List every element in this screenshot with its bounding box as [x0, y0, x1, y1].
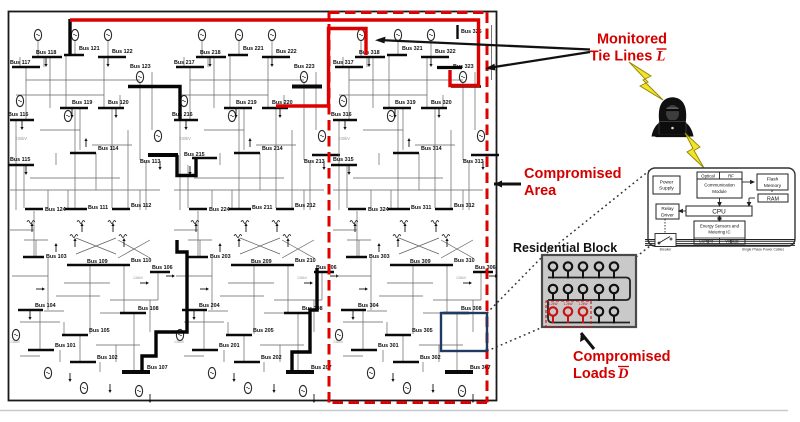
meter: power supply [653, 176, 680, 194]
bus 120 [98, 100, 129, 108]
bus 110 [112, 258, 151, 265]
tie line 113-215 (bold) [150, 155, 196, 176]
svg-text:Optical: Optical [701, 174, 715, 179]
svg-text:Bus 119: Bus 119 [72, 100, 92, 106]
svg-text:Bus 215: Bus 215 [184, 152, 205, 158]
bus 316 [331, 112, 357, 120]
svg-text:Bus 204: Bus 204 [199, 303, 220, 309]
meter: energy sensors and metering IC [694, 221, 745, 244]
bus 217 [174, 60, 204, 67]
dotted connector: blue box to residential block (top) [487, 256, 543, 313]
generator area 1 #9 [44, 367, 51, 378]
svg-text:Bus 305: Bus 305 [412, 328, 433, 334]
load arrows area 2 [184, 58, 339, 403]
svg-text:Bus 120: Bus 120 [108, 100, 129, 106]
generator area 3 #10 [403, 382, 410, 393]
generator area 1 #5 [64, 110, 71, 121]
svg-text:Bus 315: Bus 315 [333, 157, 354, 163]
svg-text:Bus 224: Bus 224 [209, 207, 230, 213]
label: Compromised Area [524, 166, 622, 199]
bus 301 [351, 343, 399, 350]
label: Residential Block [513, 241, 617, 255]
bus 123 [128, 64, 158, 87]
svg-text:Bus 108: Bus 108 [138, 306, 159, 312]
highlighted residential bus box (blue) [441, 313, 487, 351]
bus 320 [421, 100, 452, 108]
generator area 3 #1 [357, 29, 364, 40]
bus 223 [292, 64, 322, 87]
tie line 107-203 (bold) [142, 240, 187, 371]
svg-text:Bus 202: Bus 202 [261, 355, 282, 361]
bus 124 [25, 207, 66, 213]
generator area 3 #6 [459, 71, 466, 82]
bus 322 [421, 49, 456, 57]
bus 114 [70, 146, 118, 153]
bus 106 [150, 265, 173, 272]
bus 221 [228, 46, 264, 55]
svg-text:Compromised: Compromised [573, 349, 671, 365]
bus 209 [231, 259, 276, 265]
bus 212 [276, 203, 316, 209]
svg-text:Bus 304: Bus 304 [358, 303, 379, 309]
bus 218 [196, 50, 226, 57]
generator area 2 #11 [299, 385, 306, 396]
bus 312 [435, 203, 475, 209]
svg-text:Bus 104: Bus 104 [35, 303, 56, 309]
generator area 1 #2 [71, 29, 78, 40]
svg-text:Bus 311: Bus 311 [411, 205, 431, 211]
residential loads row 2 [549, 285, 618, 301]
bus 213 [304, 155, 340, 165]
generator area 2 #9 [208, 367, 215, 378]
arrow to compromised area [494, 181, 521, 188]
svg-text:L: L [656, 49, 666, 65]
svg-text:Bus 116: Bus 116 [8, 112, 28, 118]
svg-text:Bus 114: Bus 114 [98, 146, 118, 152]
bus 323 tie terminal bar (bold) [437, 66, 462, 69]
bus 224 [189, 207, 230, 213]
bus 317 [333, 60, 363, 67]
generator area 1 #8 [12, 329, 19, 340]
bus 113 [140, 155, 176, 165]
bus 315 [331, 157, 357, 165]
bus 109 [67, 259, 112, 265]
svg-text:Bus 303: Bus 303 [369, 254, 390, 260]
svg-text:Bus 213: Bus 213 [304, 159, 325, 165]
wires area 2 [174, 41, 324, 372]
generator area 2 #2 [235, 29, 242, 40]
svg-text:1.2kW: 1.2kW [578, 302, 587, 306]
residential feeder wires [548, 278, 630, 323]
bus 119 [60, 100, 92, 108]
meter: flash memory [757, 174, 788, 190]
svg-text:Single Phase Power Cables: Single Phase Power Cables [742, 248, 784, 252]
svg-text:Energy Sensors and: Energy Sensors and [700, 224, 740, 229]
generator area 2 #7 [318, 130, 325, 141]
bus 321 [387, 46, 423, 55]
residential loads row 1 [549, 262, 618, 278]
label: Compromised Loads [573, 349, 671, 382]
svg-text:230kV: 230kV [179, 136, 191, 141]
dotted connector: residential block to meter (bottom) [636, 246, 650, 257]
svg-text:Bus 206: Bus 206 [316, 265, 337, 271]
svg-text:Bus 205: Bus 205 [253, 328, 274, 334]
svg-text:Bus 320: Bus 320 [431, 100, 452, 106]
svg-text:Supply: Supply [659, 186, 674, 192]
svg-text:Monitored: Monitored [597, 32, 667, 48]
bus 220 [262, 100, 293, 108]
svg-text:Bus 221: Bus 221 [243, 46, 264, 52]
bus 202 [234, 355, 282, 362]
generator area 3 #3 [427, 29, 434, 40]
bus 122 [98, 49, 133, 57]
svg-text:Bus 109: Bus 109 [87, 259, 108, 265]
svg-text:Bus 113: Bus 113 [140, 159, 160, 165]
generator area 3 #9 [367, 367, 374, 378]
bus 304 [341, 303, 379, 310]
generator area 1 #1 [34, 29, 41, 40]
bus 318 [355, 50, 385, 57]
bus 108 [120, 306, 159, 313]
svg-text:Bus 319: Bus 319 [395, 100, 416, 106]
generator area 1 #10 [80, 382, 87, 393]
bus 208 [284, 306, 323, 313]
svg-text:Bus 219: Bus 219 [236, 100, 257, 106]
generator area 1 #4 [16, 95, 23, 106]
bus 121 [64, 46, 100, 55]
svg-text:Bus 115: Bus 115 [10, 157, 30, 163]
svg-text:Bus 322: Bus 322 [435, 49, 456, 55]
svg-text:Bus 308: Bus 308 [461, 306, 482, 312]
voltage labels area 3 [333, 136, 467, 344]
bus 222 [262, 49, 297, 57]
generator area 1 #11 [135, 385, 142, 396]
bus 103 [23, 254, 67, 260]
bus 324 [348, 207, 389, 213]
svg-text:Bus 314: Bus 314 [421, 146, 442, 152]
label: Monitored Tie Lines [590, 32, 667, 65]
transformers area 1 [27, 221, 127, 238]
svg-text:138kV: 138kV [456, 276, 467, 280]
load arrows area 3 [343, 58, 498, 403]
svg-text:Bus 324: Bus 324 [368, 207, 389, 213]
lightning bolt lower [685, 133, 704, 168]
voltage labels area 2 [174, 136, 308, 344]
bus 313 [463, 155, 499, 165]
page rule at bottom [0, 410, 788, 412]
svg-text:Bus 310: Bus 310 [454, 258, 475, 264]
svg-text:Bus 312: Bus 312 [454, 203, 475, 209]
svg-text:Bus 222: Bus 222 [276, 49, 297, 55]
svg-text:Bus 106: Bus 106 [152, 265, 173, 271]
bus 118 [32, 50, 62, 57]
bus 203 [187, 254, 231, 260]
svg-text:Module: Module [712, 189, 727, 194]
generator area 1 #6 [136, 71, 143, 82]
generator area 1 #3 [104, 29, 111, 40]
svg-text:Bus 216: Bus 216 [172, 112, 193, 118]
svg-text:Bus 110: Bus 110 [131, 258, 151, 264]
svg-text:Bus 112: Bus 112 [131, 203, 151, 209]
hacker icon [652, 97, 694, 137]
arrow to tie line B [485, 52, 590, 70]
generator area 3 #7 [477, 130, 484, 141]
meter: cable caption [742, 248, 784, 252]
generator area 1 #7 [154, 130, 161, 141]
svg-text:Compromised: Compromised [524, 166, 622, 182]
bus 216 [172, 112, 198, 120]
arrow to tie line A [375, 37, 590, 50]
bus 319 [383, 100, 416, 108]
arrow to compromised loads [580, 333, 594, 349]
generator area 3 #11 [458, 385, 465, 396]
generator area 2 #6 [300, 71, 307, 82]
svg-text:RAM: RAM [767, 196, 779, 202]
svg-text:230kV: 230kV [15, 136, 27, 141]
svg-text:Bus 212: Bus 212 [295, 203, 316, 209]
svg-text:Bus 214: Bus 214 [262, 146, 283, 152]
wire near right border [491, 25, 493, 80]
bus 306 [473, 265, 496, 272]
bus 214 [234, 146, 283, 153]
bus 314 [393, 146, 442, 153]
meter: power cables [645, 240, 795, 246]
svg-text:Bus 121: Bus 121 [79, 46, 100, 52]
svg-text:Bus 218: Bus 218 [200, 50, 221, 56]
bus 210 [276, 258, 316, 265]
bus 311 [388, 205, 431, 211]
svg-text:Bus 203: Bus 203 [210, 254, 231, 260]
svg-text:Loads: Loads [573, 366, 616, 382]
transformers area 2 [191, 221, 291, 238]
svg-text:1.2kW: 1.2kW [563, 302, 572, 306]
dotted connector: blue box to residential block (bottom) [487, 327, 543, 351]
svg-text:Bus 223: Bus 223 [294, 64, 315, 70]
voltage labels area 1 [10, 136, 144, 344]
bus 104 [18, 303, 56, 310]
svg-text:Bus 210: Bus 210 [295, 258, 316, 264]
svg-text:Bus 201: Bus 201 [219, 343, 240, 349]
svg-text:138kV: 138kV [133, 276, 144, 280]
svg-text:Bus 209: Bus 209 [251, 259, 272, 265]
bus 303 [346, 254, 390, 260]
generator area 2 #8 [176, 329, 183, 340]
svg-text:138kV: 138kV [10, 340, 21, 344]
generator area 2 #5 [228, 110, 235, 121]
tie line 123-217 (bold) [128, 87, 180, 120]
bus 102 [70, 355, 118, 362]
bus 201 [192, 343, 240, 350]
svg-text:Bus 102: Bus 102 [97, 355, 118, 361]
bus 105 [62, 328, 110, 335]
bus 215 [184, 152, 217, 158]
bus 323 [451, 64, 481, 87]
wires area 3 [333, 41, 483, 372]
compromised loads (red) [548, 302, 587, 324]
svg-text:Power: Power [660, 180, 674, 186]
svg-text:Memory: Memory [764, 183, 782, 189]
bus 307 [445, 365, 491, 372]
load arrows area 1 [20, 58, 175, 403]
bus 310 [435, 258, 475, 265]
bus 107 [122, 365, 168, 372]
compromised loads dashed outline [546, 301, 591, 327]
svg-text:Bus 306: Bus 306 [475, 265, 496, 271]
generator area 3 #5 [387, 110, 394, 121]
svg-text:Bus 318: Bus 318 [359, 50, 380, 56]
svg-text:Bus 217: Bus 217 [174, 60, 195, 66]
generator area 2 #10 [244, 382, 251, 393]
monitored tie line path B (red) [276, 29, 366, 107]
svg-text:138kV: 138kV [297, 276, 308, 280]
bus 302 [393, 355, 441, 362]
meter: relay driver [656, 204, 679, 219]
smart meter outer enclosure [648, 168, 795, 246]
generator area 2 #1 [198, 29, 205, 40]
bus 219 [224, 100, 257, 108]
svg-text:Bus 111: Bus 111 [88, 205, 108, 211]
bus 205 [226, 328, 274, 335]
tie line 207-301 (bold) [292, 268, 317, 371]
svg-text:Bus 117: Bus 117 [10, 60, 30, 66]
svg-text:Bus 313: Bus 313 [463, 159, 484, 165]
bus 206 [314, 265, 337, 272]
svg-text:Bus 103: Bus 103 [46, 254, 67, 260]
meter: RAM [758, 194, 788, 202]
meter: connection arrows [665, 180, 772, 244]
transformers area 3 [350, 221, 450, 238]
dotted connector: residential block to meter (top) [543, 170, 650, 256]
svg-text:138kV: 138kV [174, 340, 185, 344]
svg-text:Bus 105: Bus 105 [89, 328, 110, 334]
compromised area dashed border [329, 13, 487, 403]
bus 117 [10, 60, 40, 67]
bus 207 [286, 365, 332, 372]
generator area 3 #8 [335, 329, 342, 340]
meter: breaker [655, 234, 676, 252]
svg-text:Bus 321: Bus 321 [402, 46, 423, 52]
bus 116 [8, 112, 34, 120]
bus 309 [390, 259, 435, 265]
svg-text:D: D [617, 366, 629, 382]
bus 325 [458, 25, 482, 39]
svg-text:Communication: Communication [704, 183, 735, 188]
bus 115 [8, 157, 34, 165]
generator area 3 #4 [339, 95, 346, 106]
svg-text:CPU: CPU [712, 209, 726, 216]
svg-text:Bus 118: Bus 118 [36, 50, 56, 56]
svg-text:Metering IC: Metering IC [708, 230, 730, 235]
svg-text:230kV: 230kV [338, 136, 350, 141]
svg-text:Bus 316: Bus 316 [331, 112, 352, 118]
lightning bolt upper [629, 62, 663, 100]
svg-text:Bus 101: Bus 101 [55, 343, 76, 349]
svg-text:138kV: 138kV [333, 340, 344, 344]
bus 211 [229, 205, 272, 211]
svg-text:Tie Lines: Tie Lines [590, 49, 653, 65]
bus 305 [385, 328, 433, 335]
svg-text:Bus 317: Bus 317 [333, 60, 354, 66]
meter: communication module [697, 172, 742, 198]
svg-text:Area: Area [524, 183, 557, 199]
svg-text:Bus 107: Bus 107 [147, 365, 168, 371]
svg-text:Bus 302: Bus 302 [420, 355, 441, 361]
tie line bus121 riser (bold) [68, 19, 71, 56]
bus 111 [65, 205, 108, 211]
svg-text:Bus 211: Bus 211 [252, 205, 272, 211]
svg-text:1.2kW: 1.2kW [548, 302, 557, 306]
svg-text:Driver: Driver [661, 213, 674, 219]
generator area 2 #4 [180, 95, 187, 106]
residential loads row 3 (2 normal) [595, 307, 618, 323]
generator area 3 #2 [394, 29, 401, 40]
svg-text:Relay: Relay [661, 206, 674, 212]
svg-text:Breaker: Breaker [660, 248, 673, 252]
residential block box [542, 255, 636, 327]
generator area 2 #3 [268, 29, 275, 40]
svg-text:Bus 122: Bus 122 [112, 49, 133, 55]
svg-text:Bus 124: Bus 124 [45, 207, 66, 213]
svg-text:Residential Block: Residential Block [513, 241, 617, 255]
svg-text:RF: RF [728, 174, 734, 179]
bus 308 [443, 306, 482, 313]
bus 101 [28, 343, 76, 350]
wires area 1 [10, 41, 160, 372]
monitored tie line path A (red) [70, 20, 479, 86]
diagram outer border [9, 12, 497, 401]
svg-text:Bus 123: Bus 123 [130, 64, 151, 70]
svg-text:Bus 301: Bus 301 [378, 343, 399, 349]
svg-text:Bus 309: Bus 309 [410, 259, 431, 265]
bus 112 [112, 203, 151, 209]
svg-text:Flash: Flash [767, 177, 779, 183]
meter: CPU [686, 206, 752, 216]
bus 204 [182, 303, 220, 310]
